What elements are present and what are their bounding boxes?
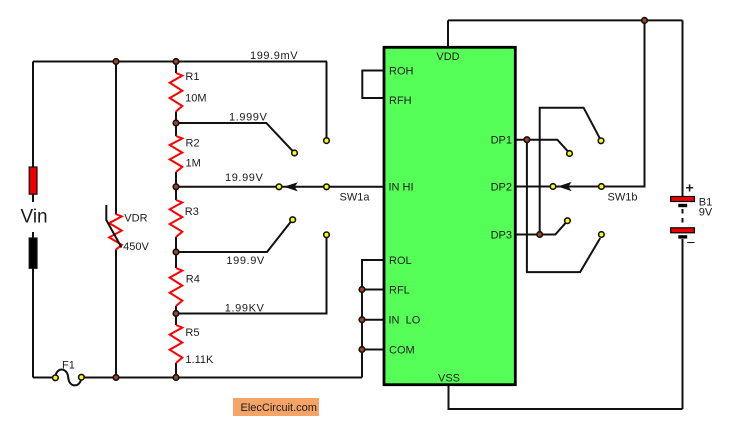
- wire: bottom rail left of fuse: [33, 377, 53, 379]
- SW1a throw 2 (1.999V): [292, 150, 298, 156]
- wire: bottom rail from fuse to analog common bus: [84, 377, 362, 379]
- SW1a throw 4 (199.9V): [290, 217, 296, 223]
- svg-text:R1: R1: [185, 71, 199, 83]
- svg-text:R2: R2: [186, 137, 200, 149]
- SW1a throw 1 (199.9mV): [324, 138, 330, 144]
- resistor R2: [170, 136, 183, 172]
- svg-text:DP2: DP2: [491, 181, 512, 193]
- Vin red probe: [29, 167, 37, 194]
- svg-text:1.11K: 1.11K: [185, 354, 214, 366]
- svg-text:1.99KV: 1.99KV: [225, 302, 265, 314]
- wire: SW1b pole to V+ rail: [516, 20, 645, 186]
- svg-text:VSS: VSS: [438, 373, 460, 385]
- junction node: R4-R5: [173, 311, 179, 317]
- svg-text:Vin: Vin: [21, 207, 48, 228]
- junction node: R1-R2: [173, 120, 179, 126]
- svg-text:R4: R4: [186, 274, 200, 286]
- SW1b pole: [599, 184, 605, 190]
- wire: 199.9mV drop to SW1a throw 1: [326, 62, 328, 139]
- svg-text:DP1: DP1: [491, 135, 512, 147]
- svg-text:199.9V: 199.9V: [226, 255, 265, 267]
- ElecCircuit.com badge: [233, 398, 319, 416]
- wire: DP1 line to SW1b throw 2: [516, 140, 569, 152]
- wire: top V+ rail: [448, 19, 683, 21]
- svg-text:ROL: ROL: [389, 255, 412, 267]
- wire: battery top lead: [682, 20, 684, 196]
- svg-text:VDD: VDD: [436, 51, 459, 63]
- SW1a throw 3 (19.99V): [276, 184, 282, 190]
- wire: 19.99V tap / IN HI line through SW1a: [176, 186, 384, 188]
- svg-text:SW1a: SW1a: [340, 192, 371, 204]
- IC U1 ICL7107 body: [384, 47, 515, 384]
- svg-text:F1: F1: [62, 360, 75, 372]
- junction node: IN LO bus: [359, 317, 365, 323]
- battery plus plate (top cell): [671, 197, 695, 202]
- varistor VDR 450V: [109, 214, 122, 250]
- SW1b throw 1: [598, 138, 604, 144]
- wire: VSS to battery minus: [449, 385, 683, 409]
- svg-text:SW1b: SW1b: [608, 191, 638, 203]
- junction node: top rail / R1: [173, 59, 179, 65]
- wire: 199.9V tap to SW1a throw 4: [176, 222, 291, 252]
- wire: battery bottom lead: [682, 239, 684, 409]
- svg-text:RFL: RFL: [389, 284, 410, 296]
- SW1b throw 5: [599, 232, 605, 238]
- wire: ROH-RFH loop: [362, 71, 384, 99]
- fuse terminal right: [79, 374, 85, 380]
- wire: VDR branch lower: [115, 250, 117, 378]
- SW1b throw 3 (DP2): [550, 184, 556, 190]
- wire: left vertical (Vin lead, lower): [32, 232, 34, 378]
- switch SW1b wiper arrow: [558, 182, 572, 191]
- wire: DP1 branch to SW1b throw 5: [527, 140, 600, 272]
- resistor R4: [170, 268, 183, 306]
- svg-text:1.999V: 1.999V: [229, 111, 268, 123]
- svg-text:450V: 450V: [123, 241, 149, 253]
- junction node: RFL bus: [359, 287, 365, 293]
- junction node: V+ rail / SW1b: [642, 18, 648, 24]
- wire: top-left horizontal 199.9mV rail: [33, 61, 327, 63]
- SW1b throw 2: [567, 151, 573, 157]
- junction node: DP1 branch: [524, 137, 530, 143]
- fuse F1: [55, 370, 81, 386]
- junction node: top rail / VDR: [113, 59, 119, 65]
- svg-text:ROH: ROH: [389, 66, 414, 78]
- svg-text:COM: COM: [389, 344, 415, 356]
- battery dashed link: [682, 209, 684, 226]
- SW1a throw 5 (1.99KV): [324, 232, 330, 238]
- svg-text:R5: R5: [185, 327, 199, 339]
- junction node: bottom rail / VDR: [113, 375, 119, 381]
- svg-text:+: +: [686, 180, 694, 196]
- Vin black probe: [29, 238, 37, 268]
- resistor R1: [170, 73, 183, 112]
- svg-text:1M: 1M: [186, 157, 201, 169]
- svg-text:R3: R3: [185, 206, 199, 218]
- wire: resistor-chain leads R1..R5: [175, 62, 177, 378]
- wire: left vertical (Vin lead, upper): [32, 62, 34, 203]
- wire: VDR branch upper: [115, 62, 117, 215]
- resistor R5: [170, 325, 183, 363]
- SW1a pole: [324, 184, 330, 190]
- SW1b throw 4: [565, 218, 571, 224]
- resistor R3: [170, 200, 183, 237]
- svg-text:9V: 9V: [699, 206, 713, 218]
- battery plus plate (bottom cell): [671, 228, 695, 233]
- svg-text:IN HI: IN HI: [389, 182, 414, 194]
- battery B1 9V: [671, 180, 713, 252]
- svg-text:DP3: DP3: [491, 229, 512, 241]
- svg-text:ElecCircuit.com: ElecCircuit.com: [241, 402, 317, 414]
- junction node: R3-R4: [173, 249, 179, 255]
- svg-text:RFH: RFH: [389, 95, 412, 107]
- wire: ROL/RFL/IN LO/COM bus: [362, 260, 384, 378]
- junction node: COM bus: [359, 347, 365, 353]
- wire: 1.999V tap to SW1a throw 2: [176, 123, 293, 151]
- wire: SW1b throw 1 path to DP3: [540, 108, 600, 235]
- junction node: bottom rail / R5: [173, 375, 179, 381]
- svg-text:IN LO: IN LO: [389, 315, 421, 327]
- svg-text:−: −: [687, 235, 696, 252]
- svg-text:VDR: VDR: [124, 213, 147, 225]
- wire: 1.99KV tap to SW1a throw 5: [176, 237, 327, 314]
- fuse terminal left: [53, 375, 59, 381]
- svg-text:19.99V: 19.99V: [225, 172, 264, 184]
- switch SW1a wiper arrow: [284, 182, 298, 191]
- junction node: DP3 branch: [537, 232, 543, 238]
- battery minus plate (top cell): [678, 204, 687, 207]
- junction node: R2-R3: [173, 184, 179, 190]
- wire: VDD riser: [447, 20, 449, 47]
- wire: DP3 line to SW1b throw 4: [516, 222, 567, 234]
- battery minus plate (bottom cell): [678, 235, 687, 238]
- svg-text:10M: 10M: [185, 92, 206, 104]
- svg-text:199.9mV: 199.9mV: [250, 50, 298, 62]
